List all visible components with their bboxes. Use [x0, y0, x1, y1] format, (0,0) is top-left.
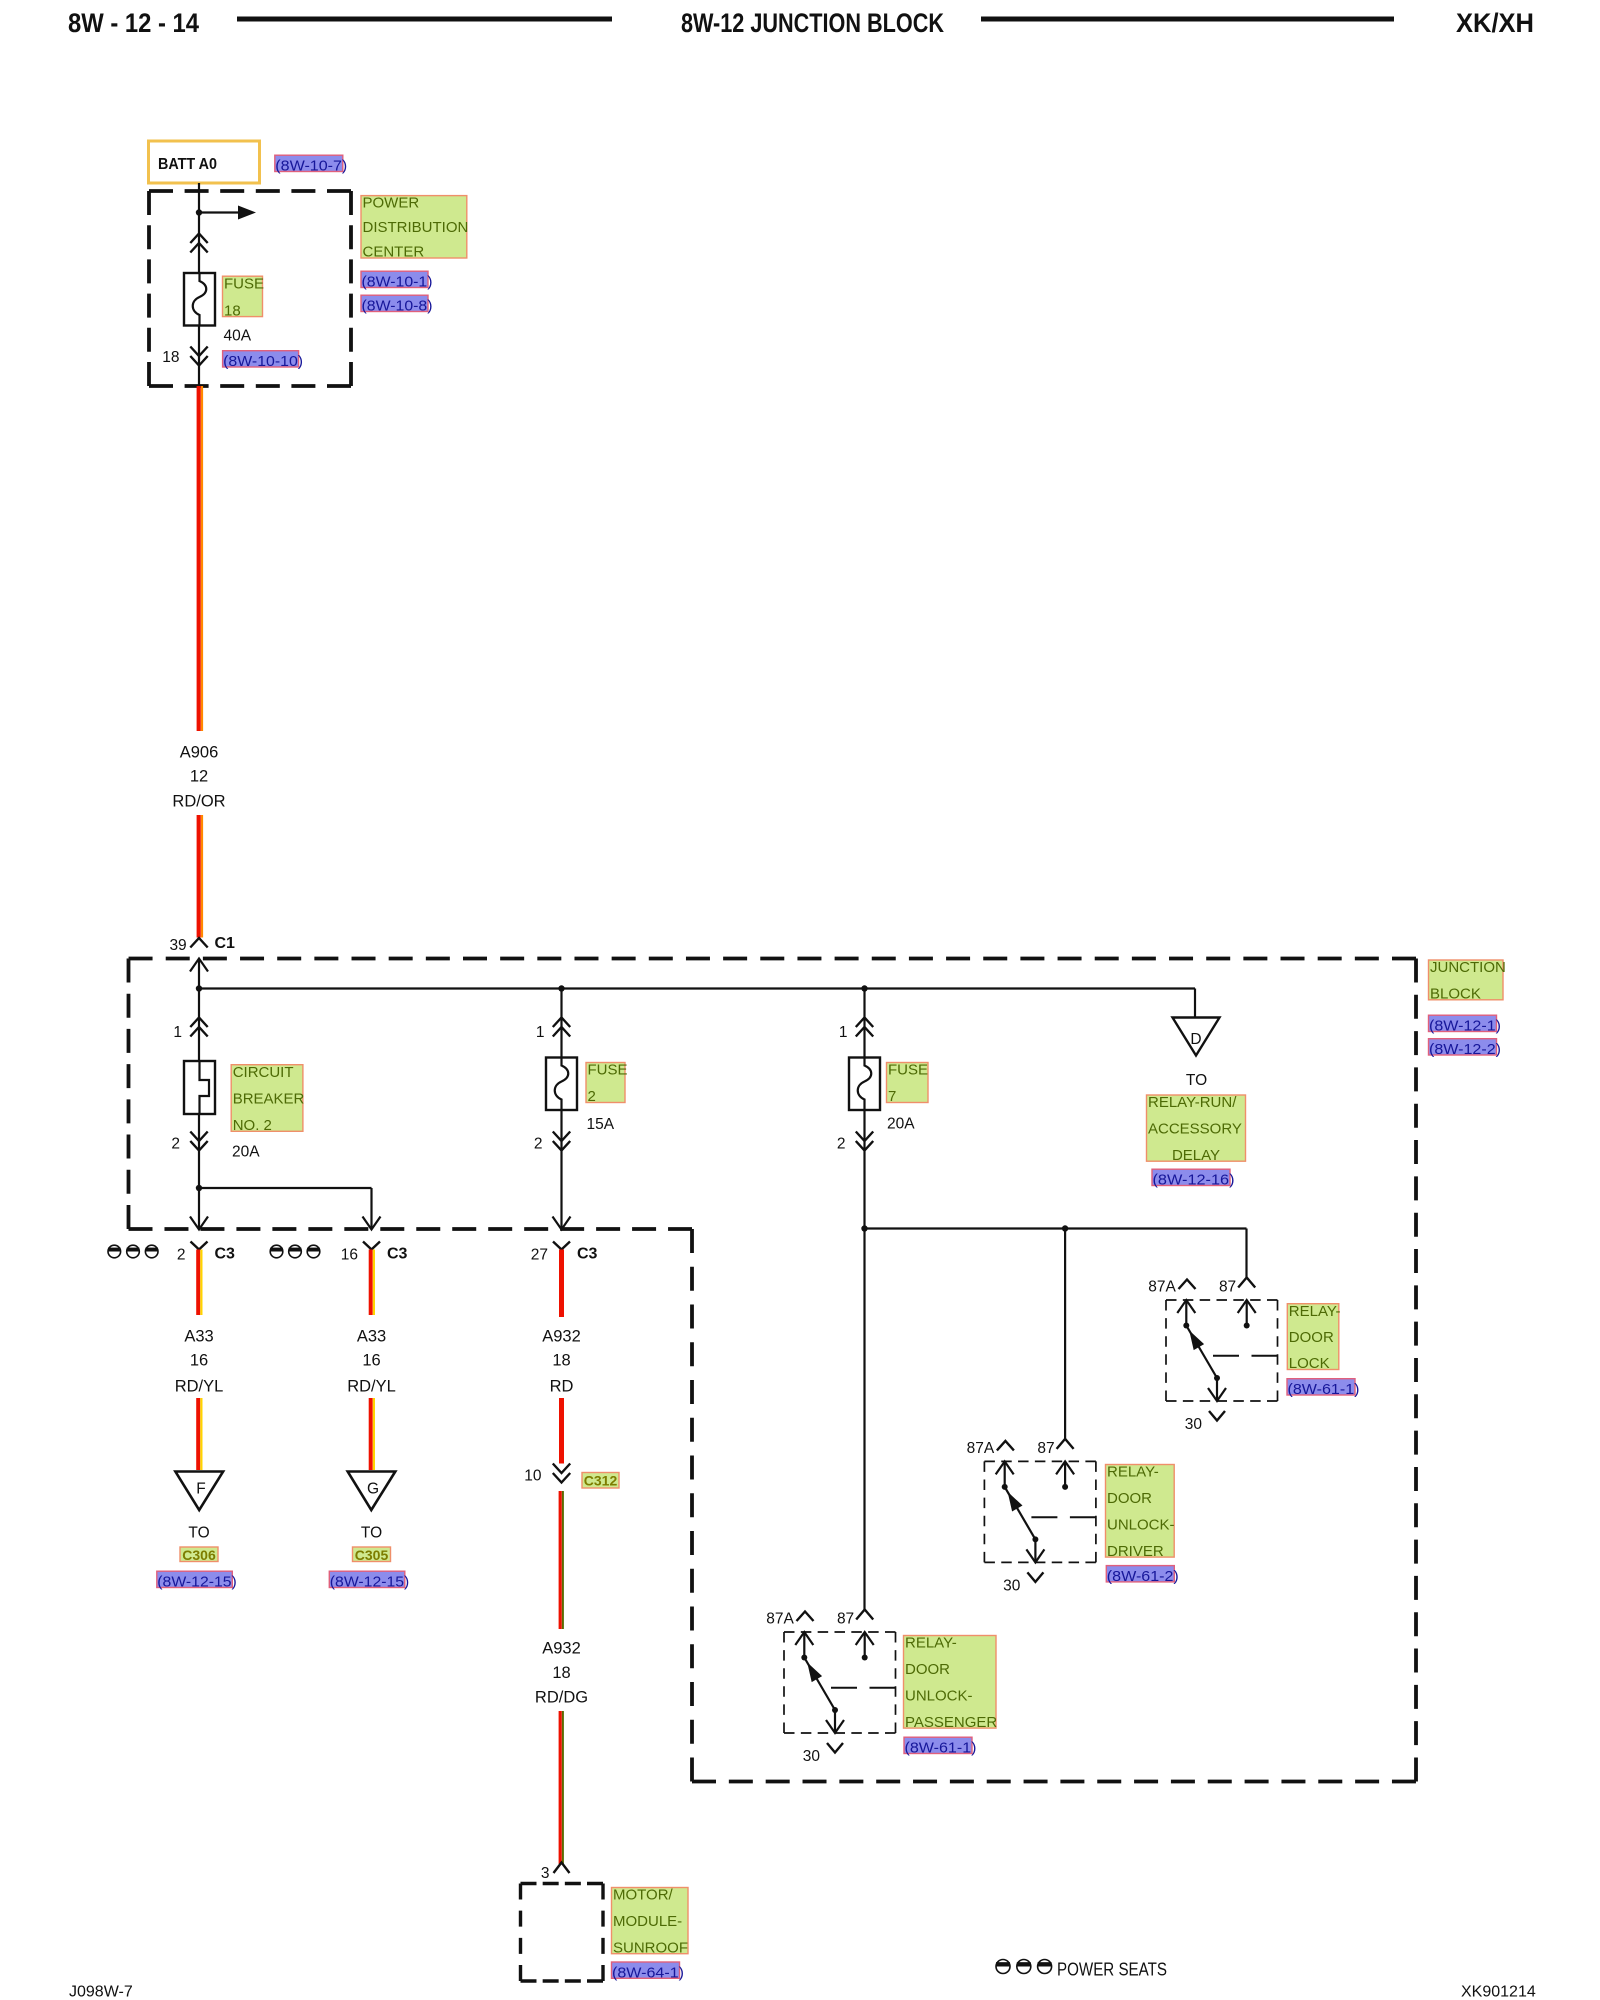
wire A932 RD/DG upper segment — [559, 1491, 562, 1629]
motor/module-sunroof dashed box — [521, 1882, 604, 1885]
svg-text:18: 18 — [552, 1664, 570, 1682]
svg-text:(8W-12-2): (8W-12-2) — [1429, 1041, 1501, 1058]
svg-text:J098W-7: J098W-7 — [69, 1984, 133, 2000]
relay door unlock passenger switch blade — [804, 1658, 835, 1711]
svg-text:1: 1 — [173, 1024, 182, 1041]
svg-text:20A: 20A — [887, 1116, 915, 1133]
svg-text:RELAY-RUN/: RELAY-RUN/ — [1148, 1094, 1237, 1111]
svg-text:ACCESSORY: ACCESSORY — [1148, 1121, 1242, 1138]
wire to PDC exit — [198, 326, 200, 387]
svg-text:C1: C1 — [215, 935, 236, 952]
svg-text:LOCK: LOCK — [1289, 1355, 1330, 1372]
junction dot — [196, 209, 202, 215]
svg-text:A932: A932 — [542, 1640, 581, 1658]
fuse 2 branch wire lower — [560, 1110, 562, 1229]
svg-text:7: 7 — [888, 1088, 896, 1105]
feed wire to relay door unlock driver — [1064, 1229, 1066, 1439]
wire A33 lower segment (2) — [369, 1398, 373, 1470]
exit arrow C3 pin 27 — [553, 1217, 571, 1230]
svg-text:27: 27 — [531, 1247, 548, 1264]
svg-text:DISTRIBUTION: DISTRIBUTION — [363, 219, 469, 236]
svg-text:30: 30 — [1185, 1416, 1203, 1433]
svg-text:A906: A906 — [180, 744, 219, 762]
svg-text:8W-12 JUNCTION BLOCK: 8W-12 JUNCTION BLOCK — [681, 8, 944, 38]
svg-text:UNLOCK-: UNLOCK- — [905, 1687, 973, 1704]
connector C1 pin 39 — [190, 938, 207, 948]
label FUSE 18 — [223, 276, 263, 316]
relay door lock contact bar — [1213, 1355, 1278, 1357]
relay feed bus — [865, 1227, 1247, 1229]
svg-text:18: 18 — [552, 1352, 570, 1370]
svg-text:(8W-61-1): (8W-61-1) — [905, 1740, 977, 1757]
label RELAY-RUN/ACCESSORY DELAY — [1147, 1095, 1246, 1161]
svg-text:10: 10 — [524, 1468, 542, 1485]
wire A33 RD/YL upper segment (C3 pin 16) — [369, 1250, 373, 1316]
relay door lock pin 87 terminal — [1246, 1300, 1248, 1326]
feed wire to relay door unlock passenger — [863, 1229, 865, 1610]
relay door lock switch blade — [1186, 1326, 1217, 1379]
svg-text:FUSE: FUSE — [224, 275, 264, 292]
svg-text:(8W-10-7): (8W-10-7) — [275, 158, 347, 175]
connector double chevron down — [190, 347, 207, 357]
reference (8W-12-16) — [1152, 1169, 1230, 1185]
fuse 7 branch wire upper — [863, 989, 865, 1058]
label MOTOR/MODULE-SUNROOF — [612, 1888, 689, 1954]
relay door unlock driver pin 30 terminal — [1034, 1539, 1036, 1562]
exit arrow C3 pin 16 — [363, 1217, 381, 1230]
circuit breaker branch wire upper — [198, 989, 200, 1062]
wire A932 RD/DG lower segment — [559, 1711, 562, 1864]
relay door unlock passenger pin 30 terminal — [834, 1710, 836, 1733]
svg-text:C3: C3 — [577, 1246, 598, 1263]
reference (8W-12-15) — [157, 1571, 233, 1587]
svg-text:A33: A33 — [184, 1328, 213, 1346]
svg-text:BLOCK: BLOCK — [1430, 986, 1481, 1003]
svg-text:RELAY-: RELAY- — [905, 1635, 957, 1652]
off-page connector triangle G — [348, 1472, 396, 1511]
in-page connector D triangle — [1173, 1018, 1220, 1056]
svg-text:RD/YL: RD/YL — [175, 1378, 224, 1396]
exit arrow C3 pin 2 — [190, 1217, 208, 1230]
svg-text:SUNROOF: SUNROOF — [613, 1939, 688, 1956]
svg-text:3: 3 — [541, 1865, 550, 1882]
reference (8W-12-1) — [1429, 1015, 1497, 1031]
svg-text:C3: C3 — [387, 1246, 408, 1263]
relay door unlock driver switch blade — [1005, 1487, 1036, 1540]
svg-text:(8W-61-2): (8W-61-2) — [1107, 1568, 1179, 1585]
circuit breaker branch wire lower — [198, 1114, 200, 1229]
svg-text:RELAY-: RELAY- — [1289, 1303, 1341, 1320]
connector C3 pin 16 Y symbol — [363, 1242, 380, 1250]
svg-text:87: 87 — [1219, 1279, 1236, 1296]
svg-text:XK901214: XK901214 — [1461, 1984, 1536, 2000]
svg-text:16: 16 — [190, 1352, 208, 1370]
svg-text:TO: TO — [361, 1525, 382, 1542]
off-page connector triangle F — [175, 1472, 223, 1511]
svg-text:40A: 40A — [224, 328, 252, 345]
svg-text:30: 30 — [1003, 1577, 1021, 1594]
svg-text:DOOR: DOOR — [1289, 1329, 1334, 1346]
reference (8W-64-1) — [612, 1962, 680, 1978]
power seat screw symbols mid — [270, 1245, 283, 1258]
wire A906 lower segment — [197, 815, 201, 938]
label RELAY-DOOR LOCK — [1287, 1304, 1339, 1370]
svg-text:JUNCTION: JUNCTION — [1430, 959, 1506, 976]
reference (8W-12-15) (2) — [329, 1571, 405, 1587]
relay door lock box — [1166, 1299, 1278, 1301]
svg-text:16: 16 — [362, 1352, 380, 1370]
svg-text:POWER SEATS: POWER SEATS — [1057, 1960, 1167, 1980]
header left rule — [237, 17, 612, 22]
internal bus wire — [199, 987, 1195, 989]
svg-text:RD/OR: RD/OR — [172, 793, 225, 811]
label CIRCUIT BREAKER NO. 2 — [231, 1065, 303, 1132]
svg-text:15A: 15A — [587, 1116, 615, 1133]
svg-text:RD/DG: RD/DG — [535, 1689, 588, 1707]
power seats legend symbols — [996, 1960, 1010, 1974]
svg-text:TO: TO — [188, 1525, 209, 1542]
svg-text:(8W-10-10): (8W-10-10) — [223, 353, 303, 370]
svg-text:(8W-12-1): (8W-12-1) — [1429, 1018, 1501, 1035]
relay door unlock driver pin 87A terminal — [1004, 1461, 1006, 1487]
relay door unlock passenger pin 87 terminal — [864, 1632, 866, 1658]
power seat screw symbols left — [108, 1245, 121, 1258]
svg-text:(8W-12-15): (8W-12-15) — [330, 1574, 410, 1591]
svg-text:12: 12 — [190, 768, 208, 786]
svg-text:D: D — [1190, 1031, 1201, 1048]
reference (8W-61-2) — [1106, 1566, 1174, 1582]
svg-text:2: 2 — [588, 1088, 596, 1105]
circuit breaker no.2 symbol — [184, 1061, 215, 1114]
wire A33 RD/YL upper segment (C3 pin 2) — [196, 1250, 200, 1316]
svg-text:UNLOCK-: UNLOCK- — [1107, 1516, 1175, 1533]
svg-text:(8W-64-1): (8W-64-1) — [612, 1964, 684, 1981]
label RELAY-DOOR UNLOCK-DRIVER — [1106, 1465, 1175, 1558]
svg-text:(8W-61-1): (8W-61-1) — [1288, 1381, 1360, 1398]
reference (8W-61-1) — [1287, 1379, 1355, 1395]
wire A932 RD upper segment (C3 pin 27) — [559, 1250, 564, 1318]
svg-text:DELAY: DELAY — [1172, 1147, 1220, 1164]
svg-text:MOTOR/: MOTOR/ — [613, 1887, 674, 1904]
svg-text:30: 30 — [803, 1748, 821, 1765]
fuse 7 symbol — [849, 1058, 880, 1111]
connector C312 pin 10 — [553, 1464, 570, 1474]
svg-text:C3: C3 — [215, 1246, 236, 1263]
svg-text:DOOR: DOOR — [905, 1661, 950, 1678]
svg-text:16: 16 — [341, 1247, 358, 1264]
svg-text:DOOR: DOOR — [1107, 1490, 1152, 1507]
wire from battery into PDC — [198, 183, 200, 273]
svg-text:2: 2 — [534, 1136, 543, 1153]
relay door unlock passenger contact bar — [831, 1687, 896, 1689]
label POWER DISTRIBUTION CENTER — [361, 196, 467, 258]
svg-text:FUSE: FUSE — [888, 1062, 928, 1079]
wire A33 lower segment — [196, 1398, 200, 1470]
svg-text:POWER: POWER — [363, 195, 420, 212]
svg-text:39: 39 — [169, 937, 186, 954]
svg-text:RD: RD — [550, 1378, 574, 1396]
fuse 18 symbol — [184, 273, 215, 326]
reference (8W-10-1) — [361, 271, 428, 287]
relay door unlock passenger box — [784, 1631, 896, 1633]
relay door lock pin 30 terminal — [1216, 1378, 1218, 1401]
connector double chevron — [190, 234, 207, 244]
svg-text:F: F — [196, 1481, 205, 1498]
label RELAY-DOOR UNLOCK-PASSENGER — [904, 1636, 997, 1729]
wire A906 12 RD/OR upper segment — [197, 386, 201, 731]
svg-text:FUSE: FUSE — [588, 1062, 628, 1079]
svg-text:MODULE-: MODULE- — [613, 1913, 682, 1930]
svg-text:(8W-12-15): (8W-12-15) — [157, 1574, 237, 1591]
label FUSE 7 — [887, 1063, 929, 1103]
svg-text:C312: C312 — [584, 1472, 618, 1488]
branch wire to C3 pin 16 — [199, 1187, 372, 1189]
power distribution center dashed box — [149, 189, 351, 193]
connector label C305 — [353, 1547, 391, 1562]
svg-text:2: 2 — [177, 1247, 186, 1264]
svg-text:(8W-12-16): (8W-12-16) — [1153, 1172, 1235, 1189]
header right rule — [981, 17, 1394, 22]
svg-text:CIRCUIT: CIRCUIT — [233, 1064, 294, 1081]
svg-text:C305: C305 — [355, 1547, 389, 1563]
svg-text:A33: A33 — [357, 1328, 386, 1346]
junction block entry arrow from C1 — [190, 959, 208, 972]
label FUSE 2 — [586, 1063, 625, 1103]
svg-text:87A: 87A — [766, 1611, 794, 1628]
connector label C312 — [582, 1473, 619, 1489]
svg-text:CENTER: CENTER — [363, 244, 425, 261]
svg-text:1: 1 — [536, 1024, 545, 1041]
svg-text:NO. 2: NO. 2 — [233, 1117, 272, 1134]
feed wire to relay door lock — [1245, 1229, 1247, 1278]
svg-text:8W - 12 - 14: 8W - 12 - 14 — [68, 8, 199, 38]
svg-text:BREAKER: BREAKER — [233, 1090, 305, 1107]
svg-text:RD/YL: RD/YL — [347, 1378, 396, 1396]
junction block dashed outline — [129, 957, 1417, 961]
svg-text:87: 87 — [1037, 1440, 1054, 1457]
svg-text:20A: 20A — [232, 1144, 260, 1161]
svg-text:TO: TO — [1186, 1072, 1207, 1089]
svg-text:C306: C306 — [182, 1547, 216, 1563]
fuse 2 symbol — [546, 1058, 577, 1111]
svg-text:G: G — [367, 1481, 379, 1498]
svg-text:BATT A0: BATT A0 — [158, 156, 217, 173]
connector pin 3 at sunroof module — [554, 1863, 570, 1874]
relay door unlock driver contact bar — [1031, 1516, 1096, 1518]
svg-text:RELAY-: RELAY- — [1107, 1464, 1159, 1481]
svg-text:(8W-10-8): (8W-10-8) — [362, 298, 433, 315]
fuse 7 branch wire lower — [863, 1110, 865, 1229]
svg-text:18: 18 — [162, 349, 179, 366]
reference (8W-10-10) — [223, 351, 299, 367]
svg-text:A932: A932 — [542, 1328, 581, 1346]
connector C3 pin 27 Y symbol — [553, 1242, 570, 1250]
reference (8W-10-7) — [275, 155, 343, 171]
reference (8W-12-2) — [1429, 1039, 1497, 1055]
wire A932 RD lower segment — [559, 1398, 564, 1464]
connector label C306 — [180, 1547, 218, 1562]
svg-text:(8W-10-1): (8W-10-1) — [362, 274, 433, 291]
reference (8W-10-8) — [361, 295, 428, 311]
reference (8W-61-1) passenger — [904, 1737, 972, 1753]
svg-text:DRIVER: DRIVER — [1107, 1543, 1164, 1560]
bus branch down to relay-run/accessory delay — [1194, 989, 1196, 1018]
svg-text:XK/XH: XK/XH — [1456, 8, 1534, 38]
svg-text:2: 2 — [837, 1136, 846, 1153]
label JUNCTION BLOCK — [1429, 960, 1504, 1000]
svg-text:87A: 87A — [967, 1440, 995, 1457]
connector C3 pin 2 Y symbol — [191, 1242, 208, 1250]
svg-text:87A: 87A — [1148, 1279, 1176, 1296]
relay door unlock driver box — [984, 1460, 1096, 1462]
junction dot to C3 pin 16 branch — [196, 1185, 202, 1191]
relay door lock pin 87A terminal — [1185, 1300, 1187, 1326]
svg-text:PASSENGER: PASSENGER — [905, 1714, 997, 1731]
svg-text:1: 1 — [839, 1024, 848, 1041]
relay door unlock passenger pin 87A terminal — [803, 1632, 805, 1658]
branch arrow to other circuits — [199, 211, 240, 213]
fuse 2 branch wire upper — [560, 989, 562, 1058]
battery feed box BATT A0 — [149, 141, 260, 183]
svg-text:2: 2 — [171, 1136, 180, 1153]
relay door unlock driver pin 87 terminal — [1064, 1461, 1066, 1487]
svg-text:18: 18 — [224, 302, 241, 319]
svg-text:87: 87 — [837, 1611, 854, 1628]
